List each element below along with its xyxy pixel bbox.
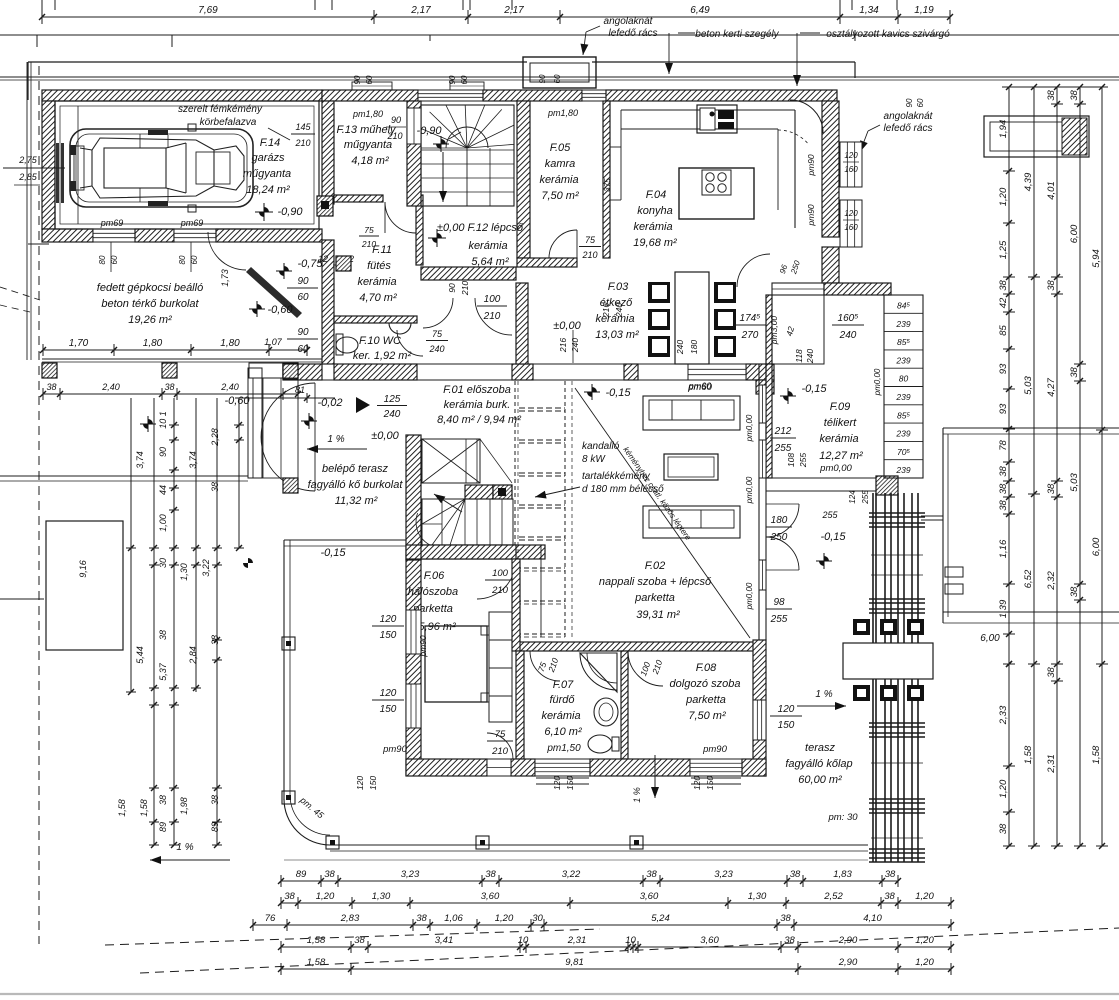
svg-text:6,52: 6,52 (1023, 569, 1034, 588)
porch post bottom (283, 478, 298, 493)
svg-text:216: 216 (601, 303, 611, 318)
wall garage bottom (42, 229, 93, 242)
svg-text:2,32: 2,32 (1046, 571, 1057, 591)
window garage vent a (93, 229, 135, 242)
svg-text:90: 90 (353, 75, 362, 84)
wall right kitchen (822, 101, 839, 237)
svg-text:12: 12 (318, 254, 328, 264)
svg-text:120: 120 (380, 688, 397, 699)
svg-text:75: 75 (495, 729, 506, 740)
svg-text:-0,02: -0,02 (317, 397, 342, 409)
wall west house (406, 435, 421, 560)
svg-text:1,20: 1,20 (915, 891, 934, 902)
svg-text:38: 38 (884, 891, 895, 902)
svg-text:műgyanta: műgyanta (243, 168, 291, 180)
svg-text:5,44: 5,44 (135, 646, 145, 664)
wall garage bottom b (135, 229, 174, 242)
svg-text:pm0,00: pm0,00 (745, 582, 754, 610)
svg-text:3,22: 3,22 (562, 869, 581, 880)
double kerb line (0, 76, 1119, 78)
svg-text:tartalékkémény: tartalékkémény (582, 471, 651, 482)
svg-text:1,58: 1,58 (139, 799, 149, 817)
garage door col (77, 106, 79, 224)
closet shaft dashed (540, 545, 542, 637)
svg-text:5,94: 5,94 (1091, 249, 1102, 268)
window stairs top (418, 90, 483, 101)
svg-text:1,98: 1,98 (179, 797, 189, 815)
stair lower treads (422, 499, 513, 545)
svg-text:±0,00: ±0,00 (553, 320, 581, 332)
svg-text:10: 10 (625, 935, 636, 946)
svg-text:3,41: 3,41 (435, 935, 454, 946)
svg-text:5,37: 5,37 (158, 662, 168, 681)
svg-text:1,73: 1,73 (220, 269, 230, 287)
door f01 triangle (356, 397, 370, 413)
svg-text:30: 30 (158, 558, 168, 568)
door kamra arc (549, 230, 577, 258)
svg-text:1,06: 1,06 (444, 913, 463, 924)
svg-text:3,22: 3,22 (201, 559, 211, 577)
svg-text:garázs: garázs (251, 152, 285, 164)
garage inner rect (55, 101, 319, 229)
svg-text:2,40: 2,40 (101, 382, 120, 392)
wc sink (389, 323, 411, 334)
dimcol r1b (1008, 664, 1010, 846)
dining chairs (648, 282, 670, 303)
svg-text:F.01 előszoba: F.01 előszoba (443, 384, 511, 396)
svg-text:180: 180 (771, 515, 788, 526)
svg-text:38: 38 (210, 795, 220, 805)
svg-text:38: 38 (1046, 90, 1057, 101)
svg-text:6,10 m²: 6,10 m² (544, 726, 582, 738)
window etkezo south (688, 364, 746, 380)
living sofa bottom (643, 506, 740, 538)
svg-text:parketta: parketta (685, 694, 726, 706)
svg-text:2,90: 2,90 (838, 957, 858, 968)
level cross porch2 (140, 416, 156, 432)
svg-text:239: 239 (895, 392, 910, 402)
vent box top a (352, 82, 392, 90)
kerb line (28, 61, 527, 63)
svg-text:5,64 m²: 5,64 m² (471, 256, 509, 268)
door f11 arc (385, 202, 416, 233)
svg-text:38: 38 (1046, 280, 1057, 291)
level -0,15 f09 low (816, 553, 832, 569)
terrace corner arc (284, 799, 330, 845)
bottom row E (281, 968, 951, 970)
svg-text:98: 98 (773, 597, 785, 608)
dining table (675, 272, 709, 364)
wall f11 f12 sep (416, 195, 423, 265)
svg-text:38: 38 (885, 869, 896, 880)
shower (580, 653, 617, 692)
svg-text:212: 212 (774, 426, 792, 437)
stair mid band (465, 485, 493, 499)
terrace post 1 (282, 637, 295, 650)
window kamra top (582, 90, 606, 101)
svg-text:1,83: 1,83 (833, 869, 852, 880)
left dim verticals (130, 398, 132, 692)
svg-text:38: 38 (998, 500, 1009, 511)
svg-text:télikert: télikert (824, 417, 857, 429)
living east windows (759, 385, 766, 423)
wall band right end (746, 364, 774, 380)
svg-text:pm0,00: pm0,00 (745, 476, 754, 504)
svg-text:szerelt fémkémény: szerelt fémkémény (178, 104, 263, 115)
sill f06 (536, 777, 589, 779)
svg-text:pm3,00: pm3,00 (769, 316, 779, 346)
kitchen island (679, 168, 754, 219)
svg-text:240: 240 (675, 340, 685, 355)
wall below f11 (334, 364, 417, 380)
left dashes corner (0, 287, 40, 300)
svg-text:1,58: 1,58 (117, 799, 127, 817)
svg-text:-0,15: -0,15 (801, 383, 827, 395)
svg-text:8,40 m² / 9,94 m²: 8,40 m² / 9,94 m² (437, 414, 521, 426)
svg-text:38: 38 (1069, 367, 1080, 378)
window west f06 a (406, 610, 421, 654)
svg-text:beton kerti szegély: beton kerti szegély (695, 29, 779, 40)
svg-text:93: 93 (998, 403, 1009, 414)
svg-text:F.03: F.03 (608, 281, 629, 293)
svg-text:5,03: 5,03 (1023, 376, 1034, 395)
sill f08 (691, 777, 741, 779)
terrace post 3 (326, 836, 339, 849)
door bath (530, 651, 560, 681)
svg-text:pm0,00: pm0,00 (745, 414, 754, 442)
svg-text:1,80: 1,80 (220, 338, 240, 349)
svg-text:38: 38 (1046, 483, 1057, 494)
wall kamra left (517, 101, 530, 258)
svg-text:10: 10 (518, 935, 529, 946)
svg-text:89: 89 (210, 822, 220, 832)
kamra shelf (610, 146, 621, 148)
level -0,15 f09 (780, 388, 796, 404)
svg-text:kamra: kamra (545, 158, 576, 170)
svg-text:fürdő: fürdő (549, 694, 575, 706)
svg-text:210: 210 (460, 281, 470, 296)
svg-text:160: 160 (844, 165, 858, 174)
svg-text:75: 75 (585, 235, 596, 245)
svg-text:F.04: F.04 (646, 189, 667, 201)
svg-text:38: 38 (416, 913, 427, 924)
svg-text:38: 38 (780, 913, 791, 924)
svg-text:1,58: 1,58 (307, 957, 326, 968)
svg-text:60: 60 (460, 75, 469, 84)
svg-text:3,60: 3,60 (700, 935, 719, 946)
svg-text:4,70 m²: 4,70 m² (359, 292, 397, 304)
svg-text:2,28: 2,28 (210, 428, 220, 447)
svg-text:255: 255 (798, 453, 808, 468)
svg-text:1,80: 1,80 (143, 338, 163, 349)
wall bath right (621, 651, 628, 759)
telikert corner block (876, 476, 898, 495)
level -0,02 (301, 413, 317, 429)
svg-text:-0,90: -0,90 (416, 125, 442, 137)
svg-text:1,94: 1,94 (998, 120, 1009, 139)
svg-text:nappali szoba + lépcső: nappali szoba + lépcső (599, 576, 712, 588)
svg-text:fütés: fütés (367, 260, 391, 272)
kitchen sink unit (697, 105, 737, 133)
svg-text:2,85: 2,85 (18, 172, 38, 182)
svg-text:5,24: 5,24 (651, 913, 670, 924)
svg-text:240: 240 (383, 409, 401, 420)
svg-text:38: 38 (998, 483, 1009, 494)
svg-text:38: 38 (210, 482, 220, 492)
svg-text:39,31 m²: 39,31 m² (636, 609, 680, 621)
wall bath top (516, 642, 760, 651)
svg-text:210: 210 (491, 746, 509, 757)
svg-text:145: 145 (295, 122, 311, 132)
wall kamra right (603, 101, 610, 258)
dimcol r1 (1008, 87, 1010, 664)
svg-text:kerámia burk.: kerámia burk. (444, 399, 511, 411)
svg-text:angolaknát: angolaknát (884, 111, 934, 122)
porch post top (283, 364, 298, 379)
window south f08 (690, 759, 742, 776)
svg-text:kerámia: kerámia (539, 174, 578, 186)
svg-text:1,19: 1,19 (914, 5, 934, 16)
wall etkezo band (624, 364, 638, 380)
svg-text:100: 100 (492, 568, 509, 579)
svg-text:ker. 1,92 m²: ker. 1,92 m² (353, 350, 412, 362)
door wc arc (397, 330, 423, 356)
door hall arc (475, 298, 512, 335)
svg-text:3,74: 3,74 (188, 451, 198, 469)
svg-text:osztályozott kavics szivárgó: osztályozott kavics szivárgó (826, 29, 950, 40)
wall top kitchen (606, 90, 837, 101)
svg-text:1,07: 1,07 (264, 337, 283, 347)
level lines dash a (519, 407, 565, 409)
svg-text:lefedő rács: lefedő rács (609, 28, 658, 39)
door f06 arc (477, 560, 516, 599)
door f06 terrace (487, 759, 511, 776)
window f13 stair (407, 108, 421, 144)
svg-text:1 %: 1 % (327, 434, 344, 445)
slope arrow f06 (150, 859, 230, 861)
svg-text:78: 78 (998, 440, 1009, 451)
svg-text:38: 38 (784, 935, 795, 946)
svg-text:255: 255 (770, 614, 788, 625)
svg-text:93: 93 (998, 363, 1009, 374)
svg-text:±0,00 F.12 lépcső: ±0,00 F.12 lépcső (437, 222, 524, 234)
svg-text:belépő terasz: belépő terasz (322, 463, 389, 475)
svg-text:60: 60 (365, 75, 374, 84)
stairs upper flight (421, 105, 514, 206)
svg-text:120: 120 (380, 614, 397, 625)
level -0,90 garage (255, 203, 273, 221)
svg-text:1,34: 1,34 (859, 5, 879, 16)
dimcol r2 (1033, 87, 1035, 846)
svg-text:174⁵: 174⁵ (740, 313, 761, 324)
svg-text:F.11: F.11 (372, 244, 392, 256)
dashed stair east edge (514, 381, 516, 637)
svg-text:38: 38 (158, 630, 168, 640)
wall hall east (516, 283, 528, 364)
svg-text:8 kW: 8 kW (582, 454, 606, 465)
svg-text:239: 239 (895, 355, 910, 365)
terrace top edge (284, 539, 406, 541)
svg-text:pm90: pm90 (382, 744, 407, 755)
svg-text:pm1,50: pm1,50 (546, 743, 581, 754)
svg-text:kerámia: kerámia (633, 221, 672, 233)
svg-text:-0,60: -0,60 (267, 304, 293, 316)
svg-text:1,58: 1,58 (1023, 745, 1034, 764)
svg-text:1,30: 1,30 (179, 563, 189, 581)
svg-text:pm69: pm69 (100, 218, 124, 228)
svg-text:pm90: pm90 (702, 744, 727, 755)
bath wc (588, 735, 612, 753)
svg-text:2,31: 2,31 (567, 935, 587, 946)
wall top garage (42, 90, 322, 101)
svg-text:±0,00: ±0,00 (371, 430, 399, 442)
svg-text:fagyálló kő burkolat: fagyálló kő burkolat (308, 479, 404, 491)
svg-text:38: 38 (284, 891, 295, 902)
right cols top line (1002, 86, 1108, 88)
svg-text:1,16: 1,16 (998, 539, 1009, 558)
wall garage house sep (322, 101, 334, 204)
svg-text:1,30: 1,30 (372, 891, 391, 902)
wall f06 top (421, 545, 516, 559)
bottom row A (281, 880, 898, 882)
svg-text:120: 120 (844, 151, 858, 160)
svg-text:90: 90 (447, 283, 457, 293)
svg-text:F.06: F.06 (424, 570, 445, 582)
svg-text:kerámia: kerámia (541, 710, 580, 722)
level -0,60 (249, 301, 265, 317)
bath sink (594, 698, 618, 726)
svg-text:4,01: 4,01 (1046, 181, 1057, 200)
svg-text:F.10 WC: F.10 WC (359, 335, 401, 347)
dimcol r4 (1079, 87, 1081, 846)
terrace left edge (283, 540, 285, 800)
svg-text:85: 85 (998, 325, 1009, 336)
pergola table (843, 643, 933, 679)
svg-text:38: 38 (1046, 667, 1057, 678)
wall f13 stair sep (407, 101, 421, 206)
svg-text:38: 38 (998, 823, 1009, 834)
wall f13 bottom (334, 195, 383, 202)
level lines dash e (519, 536, 565, 538)
svg-text:150: 150 (380, 630, 397, 641)
ne window box (984, 116, 1089, 157)
wall east south (753, 640, 766, 776)
svg-text:255: 255 (821, 510, 838, 520)
svg-text:3,23: 3,23 (714, 869, 733, 880)
svg-text:3,60: 3,60 (481, 891, 500, 902)
svg-text:5,03: 5,03 (1069, 473, 1080, 492)
svg-text:2,75: 2,75 (18, 155, 38, 165)
slope arrow right (797, 705, 846, 707)
svg-text:89: 89 (158, 822, 168, 832)
wall garage left (42, 101, 55, 229)
svg-text:44: 44 (158, 485, 168, 495)
svg-text:240: 240 (570, 338, 580, 353)
svg-text:1 %: 1 % (176, 842, 193, 853)
living sofa top (643, 396, 740, 430)
svg-text:38: 38 (1069, 90, 1080, 101)
kitchen counter (621, 109, 795, 111)
wall f06 east (512, 559, 520, 651)
svg-text:120: 120 (844, 209, 858, 218)
svg-text:120: 120 (355, 776, 365, 790)
svg-text:7,69: 7,69 (198, 5, 218, 16)
svg-text:3,60: 3,60 (640, 891, 659, 902)
svg-text:38: 38 (485, 869, 496, 880)
svg-text:pm90: pm90 (806, 204, 816, 227)
svg-text:90: 90 (448, 75, 457, 84)
svg-text:85⁵: 85⁵ (897, 410, 910, 420)
level lines dash c (519, 472, 565, 474)
svg-text:1,70: 1,70 (69, 338, 89, 349)
window west f06 b (406, 684, 421, 728)
pergola squares (853, 619, 870, 635)
svg-text:körbefalazva: körbefalazva (200, 117, 257, 128)
carport dim row (43, 349, 269, 351)
svg-text:150: 150 (778, 720, 795, 731)
svg-text:2,33: 2,33 (998, 705, 1009, 725)
svg-text:60: 60 (297, 292, 309, 303)
svg-text:210: 210 (386, 131, 402, 141)
dimcol r3 (1056, 87, 1058, 846)
svg-text:3,74: 3,74 (135, 451, 145, 469)
svg-text:2,52: 2,52 (823, 891, 843, 902)
telikert west wall (766, 364, 772, 478)
svg-text:kerámia: kerámia (819, 433, 858, 445)
svg-text:4,10: 4,10 (863, 913, 882, 924)
svg-text:6,00: 6,00 (1091, 537, 1102, 556)
svg-text:38: 38 (1069, 586, 1080, 597)
svg-text:4,39: 4,39 (1023, 172, 1034, 191)
chimney diag line (575, 388, 750, 638)
svg-text:-0,90: -0,90 (277, 206, 303, 218)
coffee table (664, 454, 718, 480)
svg-text:90: 90 (297, 276, 309, 287)
east door arc b (766, 537, 799, 570)
wall garage house sep b (322, 240, 334, 364)
east door arc a (766, 504, 799, 537)
svg-text:125: 125 (384, 394, 401, 405)
carport post c (283, 363, 298, 378)
terrace post 2 (282, 791, 295, 804)
svg-text:1 %: 1 % (815, 689, 832, 700)
wall f12 bottom band (421, 267, 516, 280)
svg-text:255: 255 (774, 443, 792, 454)
svg-text:38: 38 (998, 466, 1009, 477)
dashed property left (38, 66, 40, 944)
svg-text:hálószoba: hálószoba (408, 586, 458, 598)
svg-text:kerámia: kerámia (468, 240, 507, 252)
svg-text:240: 240 (428, 344, 444, 354)
wall hall bottom right (512, 364, 533, 380)
svg-text:F.05: F.05 (550, 142, 571, 154)
svg-text:6,00: 6,00 (1069, 224, 1080, 243)
svg-text:239: 239 (895, 319, 910, 329)
neighbor rect (943, 427, 1119, 429)
level -0,90 stair (433, 136, 449, 152)
svg-text:250: 250 (770, 532, 788, 543)
porch frame (248, 368, 262, 478)
svg-text:1,20: 1,20 (998, 187, 1009, 206)
wall right below windows (822, 247, 839, 283)
slope arrow porch (307, 448, 367, 450)
band etkezo thin (533, 363, 624, 365)
terrace bottom edge (330, 844, 868, 846)
svg-text:pm0,00: pm0,00 (873, 368, 882, 396)
svg-text:160⁵: 160⁵ (838, 313, 859, 324)
svg-text:270: 270 (741, 330, 759, 341)
door f08 (628, 651, 663, 686)
